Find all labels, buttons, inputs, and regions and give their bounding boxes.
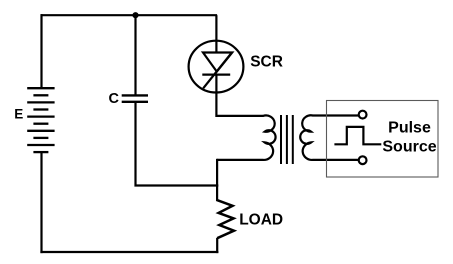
SCR cathode bar [202, 73, 230, 75]
SCR circle [189, 41, 244, 93]
wire top horizontal [41, 14, 217, 16]
svg-text:Source: Source [382, 138, 436, 155]
svg-text:LOAD: LOAD [239, 212, 283, 229]
wire capacitor bottom lead to load node [136, 102, 219, 186]
SCR thyristor triangle [203, 53, 232, 72]
transformer T1 primary winding [216, 115, 275, 160]
wire SCR anode lead [215, 15, 217, 53]
node junction dot [132, 12, 138, 18]
svg-text:SCR: SCR [250, 54, 283, 71]
terminal bottom circle [359, 156, 367, 164]
battery E [27, 88, 54, 152]
pulse waveform icon [334, 127, 381, 144]
SCR gate diagonal [203, 53, 231, 88]
svg-text:C: C [109, 91, 120, 107]
wire bottom horizontal [40, 251, 218, 253]
resistor LOAD zigzag [216, 200, 234, 238]
terminal top circle [359, 111, 367, 119]
wire left vertical battery top lead [40, 14, 42, 88]
capacitor C [122, 95, 148, 101]
transformer T1 core [281, 115, 293, 164]
svg-text:E: E [14, 107, 23, 122]
wire load node vertical [216, 159, 218, 201]
wire SCR cathode lead [215, 75, 217, 117]
wire left vertical battery bottom lead [40, 152, 42, 253]
pulse source box [327, 101, 439, 178]
wire capacitor top lead [134, 15, 136, 95]
svg-text:Pulse: Pulse [388, 119, 431, 136]
transformer T1 secondary winding [300, 115, 359, 160]
wire resistor bottom lead [216, 238, 218, 253]
